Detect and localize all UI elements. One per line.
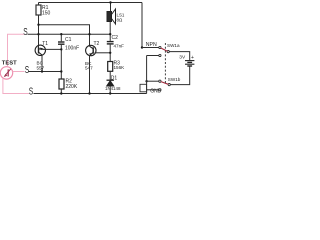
junction R2 bottom rail	[60, 92, 62, 94]
svg-text:T2: T2	[94, 41, 100, 47]
diode D1 1N4148	[107, 80, 114, 86]
wire rail A	[39, 25, 90, 46]
junction T2 emitter rail	[88, 92, 90, 94]
contact SW1B throw1	[159, 80, 161, 82]
wire R1 bottom to T1 base	[38, 15, 40, 48]
svg-text:3V: 3V	[179, 55, 186, 61]
contact SW1A throw2	[159, 54, 161, 56]
svg-text:47nF: 47nF	[114, 44, 125, 49]
transistor T2 BC547	[86, 45, 96, 55]
svg-text:GND: GND	[150, 88, 162, 94]
contact SW1B common	[168, 84, 170, 86]
junction SW1B throw1	[145, 80, 147, 82]
wire common to battery minus	[170, 66, 190, 84]
contact SW1B throw2	[159, 89, 161, 91]
svg-text:1N4148: 1N4148	[105, 86, 121, 91]
svg-text:C1: C1	[65, 37, 72, 43]
switch SW1A	[142, 48, 190, 94]
battery BAT 3V	[185, 61, 194, 66]
wire common to battery	[169, 52, 190, 60]
svg-text:SW1a: SW1a	[167, 43, 180, 48]
svg-text:+: +	[191, 55, 194, 61]
wire T1 emitter down	[41, 55, 43, 72]
junction T1 collector C1	[60, 48, 62, 50]
junction rail B tap	[37, 33, 39, 35]
svg-text:156K: 156K	[114, 65, 126, 70]
svg-text:557: 557	[37, 65, 45, 70]
wire R1 top stub	[38, 3, 40, 6]
svg-text:8Ω: 8Ω	[117, 18, 123, 23]
wire probe top pink	[8, 34, 25, 67]
wire rail B	[28, 33, 111, 35]
wire T2 emitter down	[89, 55, 91, 93]
contact SW1A throw1	[159, 46, 161, 48]
svg-text:S: S	[23, 25, 28, 37]
lever SW1B	[161, 82, 168, 85]
capacitor C2	[107, 42, 114, 44]
junction speaker top	[109, 1, 111, 3]
junction C1 top	[60, 33, 62, 35]
junction emitter row R2	[60, 70, 62, 72]
svg-text:150: 150	[42, 11, 51, 17]
svg-text:D1: D1	[111, 75, 118, 81]
svg-text:100nF: 100nF	[65, 45, 79, 51]
junction rail A tap	[37, 24, 39, 26]
wire NPN throw	[142, 47, 159, 49]
connector pad GND box	[140, 84, 147, 92]
wire R3 bottom to D1	[109, 71, 111, 80]
resistor R2	[59, 79, 64, 89]
lever SW1A	[161, 48, 168, 51]
junction T2 base	[109, 52, 111, 54]
junction rail B right end	[109, 33, 111, 35]
wire vertical throw2 chain	[146, 56, 148, 94]
svg-text:T1: T1	[42, 41, 48, 47]
svg-text:SW1b: SW1b	[168, 77, 181, 82]
svg-text:C2: C2	[112, 35, 119, 41]
resistor R3	[108, 62, 113, 72]
capacitor C1	[58, 42, 65, 44]
wire emitter T1 row	[29, 71, 62, 73]
svg-text:S: S	[29, 85, 34, 97]
svg-text:S: S	[25, 63, 30, 75]
probe arrow	[7, 69, 9, 76]
wire probe right pink	[13, 71, 25, 73]
svg-text:TEST: TEST	[2, 61, 17, 67]
loudspeaker LS1	[107, 9, 116, 24]
wire speaker bottom	[109, 22, 111, 35]
wire speaker top	[110, 3, 112, 12]
test probe transistor TEST (device under test)	[0, 67, 12, 79]
junction SW1A throw1	[141, 46, 143, 48]
wire probe bottom pink	[3, 78, 29, 94]
wire throw1	[147, 80, 159, 82]
resistor R1	[36, 5, 41, 15]
wire throw2 GND	[147, 89, 159, 91]
junction D1 bottom rail	[109, 92, 111, 94]
mechanical link dashed	[164, 43, 166, 85]
wire C1 bottom chain to R2	[60, 49, 62, 79]
junction T1 emitter row	[41, 70, 43, 72]
svg-text:NPN: NPN	[146, 42, 157, 48]
contact SW1A common	[167, 51, 169, 53]
wire T1 collector to C1 junction	[45, 48, 62, 50]
wire bottom rail GND	[34, 93, 147, 95]
junction T2 collector rail B cross	[88, 33, 90, 35]
junction dots	[37, 1, 148, 94]
switch SW1B	[147, 66, 190, 90]
transistor T1 BC557	[35, 45, 45, 55]
wire R2 bottom	[60, 89, 62, 94]
svg-text:220K: 220K	[66, 84, 78, 90]
wire throw2	[147, 55, 159, 57]
wire D1 bottom	[109, 86, 111, 94]
wire T2 base to C2/R3 junction	[95, 52, 111, 54]
wire SW1A NPN throw from top rail	[141, 3, 143, 48]
wire top rail V+	[39, 2, 143, 4]
